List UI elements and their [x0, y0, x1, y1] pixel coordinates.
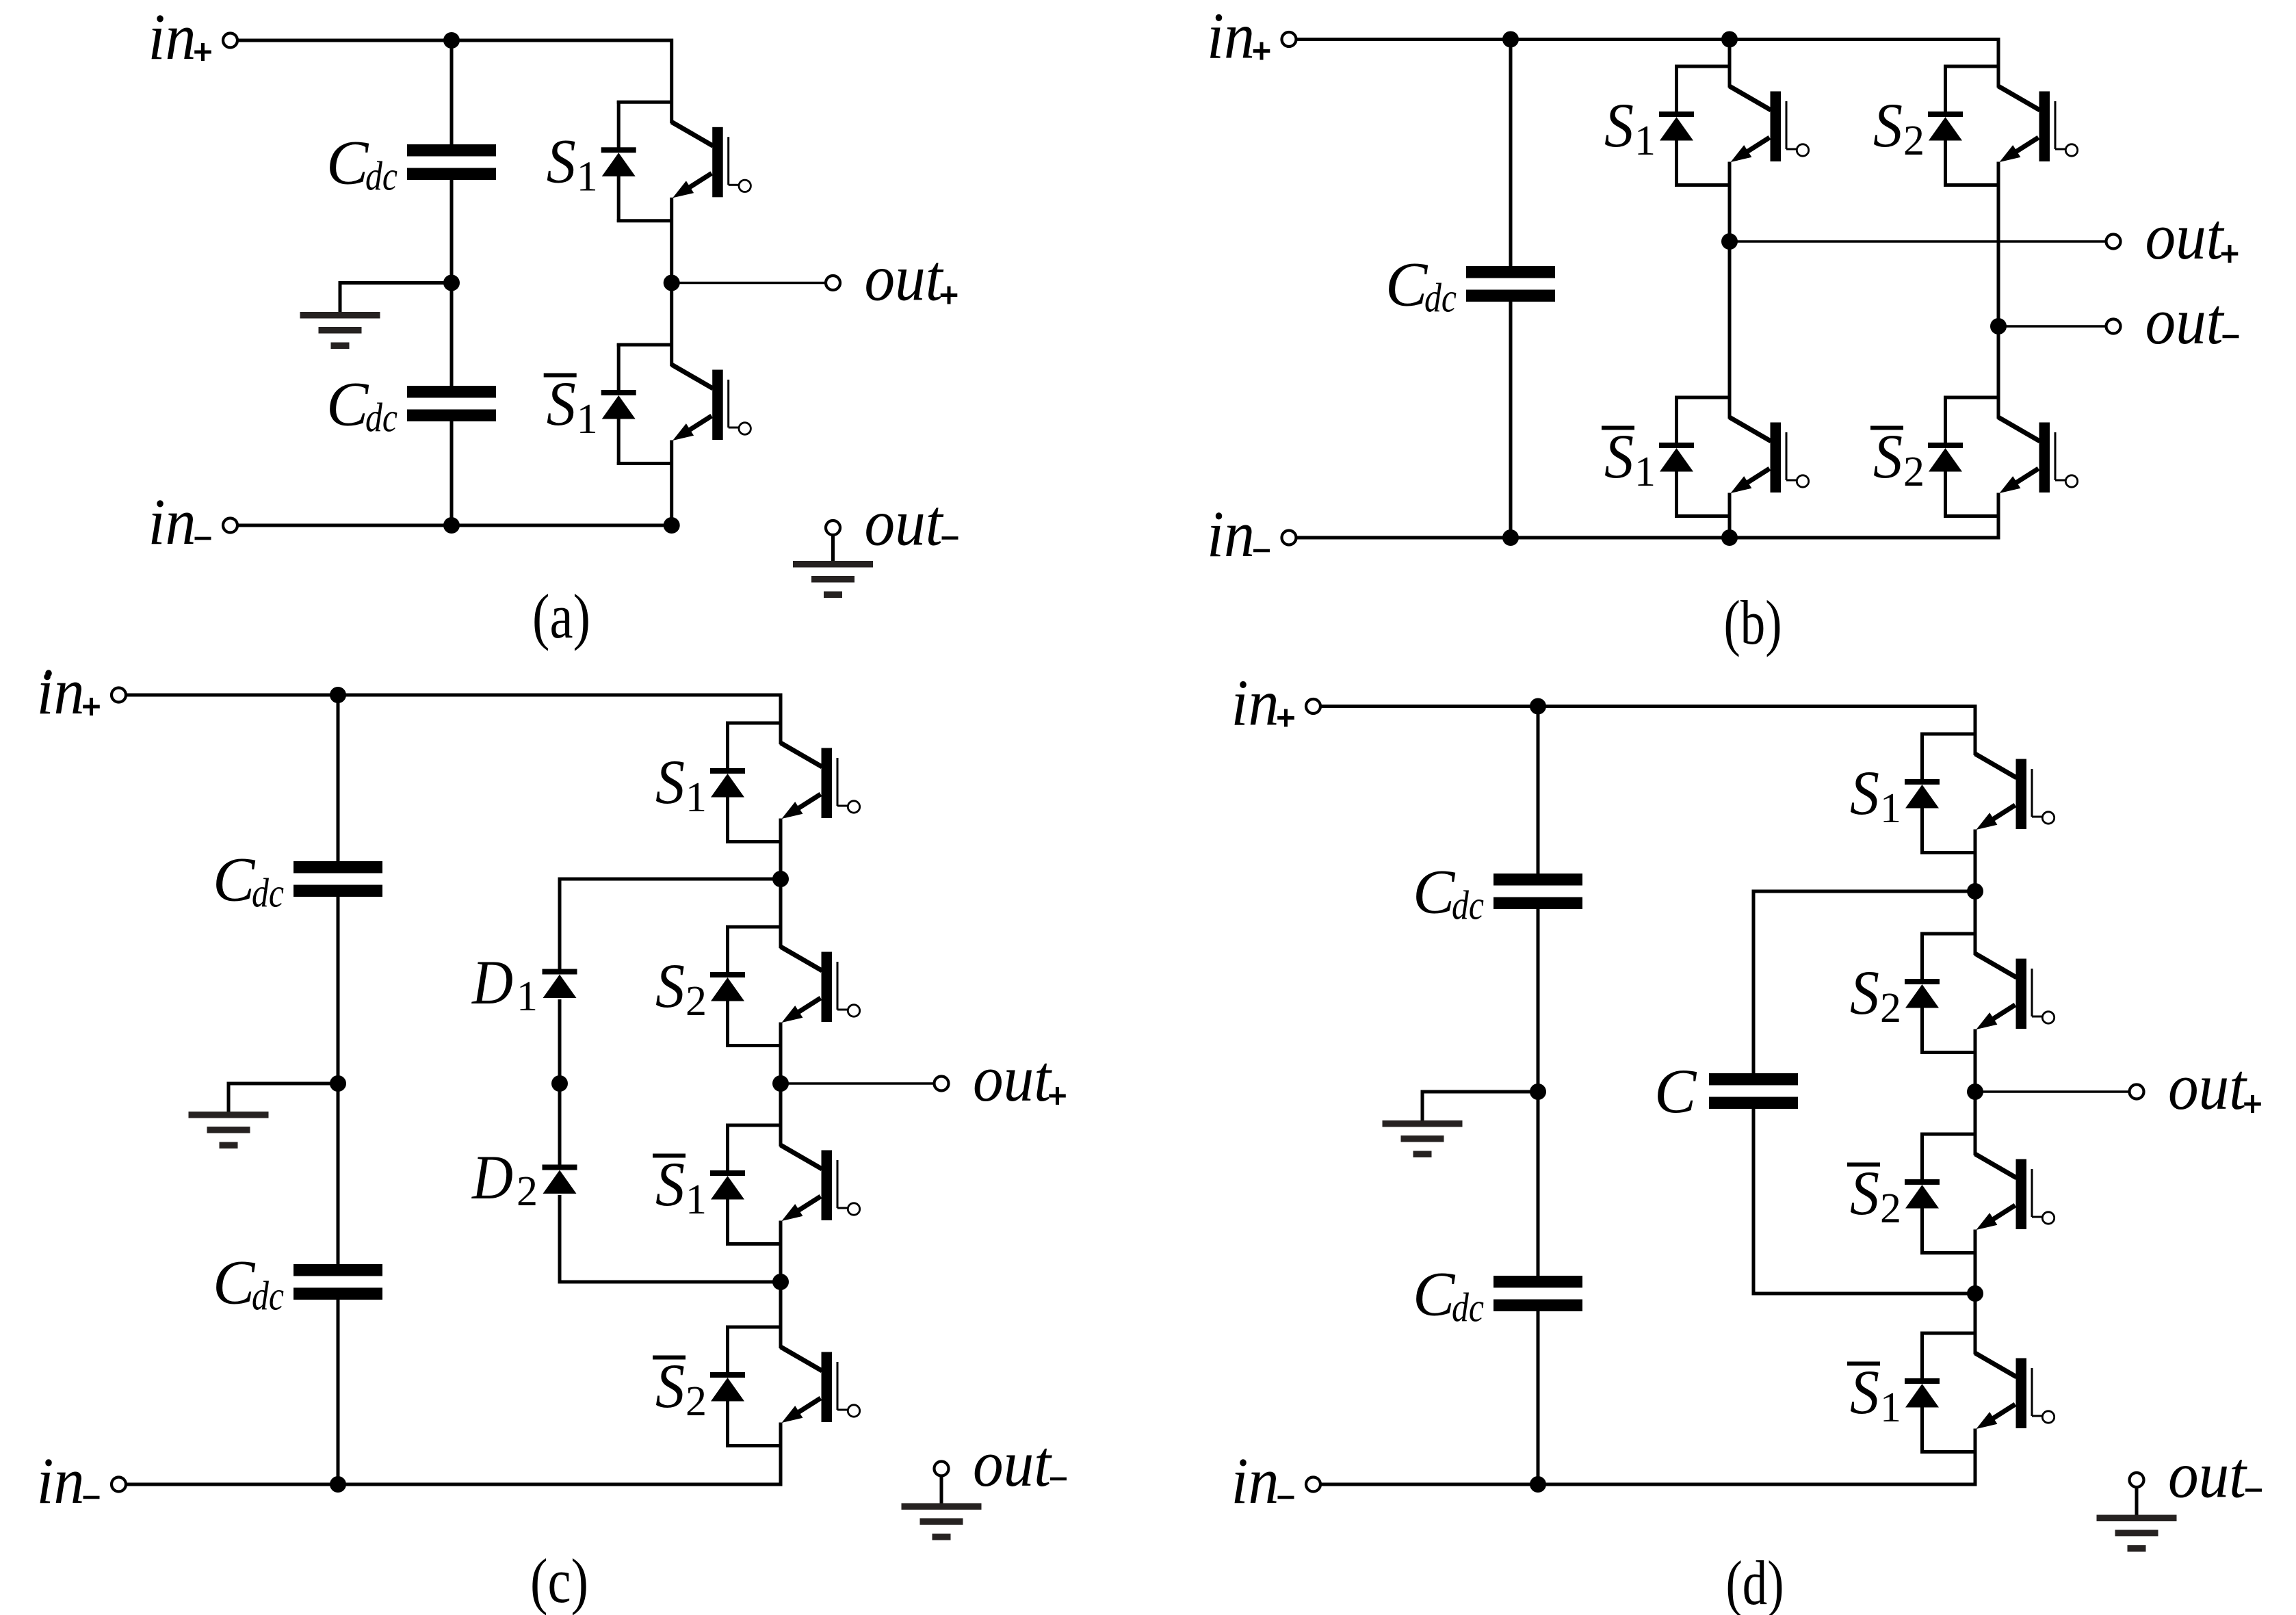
wire (b) cap bottom lead [1509, 301, 1513, 538]
svg-text:dc: dc [1424, 276, 1457, 321]
text period artifact bottom-left [44, 674, 51, 681]
wire (b) S2 emitter to out- [1997, 162, 2000, 327]
svg-text:C: C [326, 369, 369, 439]
wire (c) S2bar collector [779, 1282, 783, 1348]
transistor S2 (b): IGBT [1998, 86, 2078, 162]
capacitor Cdc upper (a) [407, 144, 496, 157]
transistor S1 (b): IGBT [1730, 86, 1809, 162]
node (c) top junction [330, 687, 346, 703]
wire (c) S1 collector [779, 695, 783, 744]
node in- (b): terminal [1282, 531, 1296, 545]
svg-text:S: S [547, 126, 576, 196]
diode S2 (b) anti-parallel [1928, 65, 1998, 187]
wire (a) bottom bus [238, 524, 674, 527]
node out+ (d): terminal [2130, 1085, 2144, 1099]
svg-text:in: in [1231, 1444, 1279, 1517]
label out+ (b) [2145, 200, 2239, 273]
diode S2bar (b) anti-parallel [1928, 396, 1998, 518]
label in- (d) [1231, 1444, 1294, 1517]
ground (a) neutral [300, 312, 380, 319]
svg-text:out: out [2168, 1050, 2247, 1123]
node (a) bottom junction leg [664, 517, 680, 534]
diode S1bar (a) anti-parallel [601, 343, 672, 465]
wire (d) cap1 bottom lead [1537, 908, 1540, 1092]
node out- (d): terminal [2130, 1473, 2144, 1487]
transistor S2bar (b): IGBT [1998, 417, 2078, 493]
transistor S2bar (d): IGBT [1975, 1154, 2054, 1230]
svg-text:D: D [471, 947, 513, 1017]
node (b) bottom junction cap [1502, 529, 1519, 546]
capacitor Cdc (b) [1466, 266, 1555, 278]
wire (b) cap top lead [1509, 40, 1513, 267]
wire (b) S1 emitter to out+ [1728, 162, 1732, 242]
svg-text:C: C [1654, 1056, 1697, 1126]
wire (a) cap1 top lead [450, 40, 454, 145]
label Cdc (b) [1385, 250, 1457, 321]
svg-text:C: C [213, 845, 256, 915]
wire (c) D1 to out+ row [558, 999, 562, 1084]
label D2 (c) [471, 1142, 538, 1215]
label in+ (c) [37, 655, 100, 728]
wire (c) J1 to D branch [558, 878, 781, 969]
label in+ (a) [148, 0, 211, 73]
svg-text:in: in [1207, 0, 1255, 73]
label in+ (d) [1231, 666, 1294, 739]
svg-text:dc: dc [1452, 1285, 1484, 1330]
capacitor Cdc lower (d) [1493, 1276, 1582, 1288]
node (a) neutral junction [443, 275, 460, 291]
svg-text:(b): (b) [1724, 588, 1782, 657]
svg-text:dc: dc [365, 154, 397, 199]
wire (c) cap2 bottom lead [337, 1299, 340, 1484]
transistor S1 (a): IGBT [672, 122, 751, 198]
wire (c) S1bar collector [779, 1084, 783, 1146]
svg-text:2: 2 [517, 1168, 538, 1215]
svg-text:out: out [973, 1042, 1052, 1115]
svg-text:C: C [1385, 250, 1429, 319]
wire (b) S2bar collector [1997, 326, 2000, 419]
node out+ (a): junction [664, 275, 680, 291]
svg-text:1: 1 [577, 396, 598, 443]
wire (c) ground stub [229, 1082, 338, 1114]
label out- (a) [865, 486, 958, 560]
label S2bar (b) [1870, 421, 1925, 495]
wire (c) bottom bus [127, 1483, 783, 1486]
label Cdc lower (a) [326, 369, 397, 441]
svg-text:dc: dc [365, 395, 397, 441]
node out+ (a): terminal [826, 276, 840, 290]
node in+ (a): terminal [223, 34, 237, 48]
transistor S2 (d): IGBT [1975, 954, 2054, 1029]
svg-text:(a): (a) [532, 581, 590, 651]
diode S1bar (d) anti-parallel [1905, 1332, 1975, 1454]
label in+ (b) [1207, 0, 1270, 73]
capacitor Cdc upper (d) [1493, 874, 1582, 886]
svg-text:S: S [655, 951, 685, 1021]
ground out- (a) [793, 561, 873, 568]
node in+ (b): terminal [1282, 32, 1296, 47]
wire (a) ground stub [340, 281, 452, 312]
ground (d) neutral [1383, 1120, 1463, 1127]
node out+ (c): junction [772, 1075, 789, 1092]
svg-text:1: 1 [1634, 118, 1656, 164]
svg-text:S: S [655, 1351, 685, 1421]
node (d) top junction [1530, 698, 1546, 715]
wire (c) cap1 bottom lead [337, 896, 340, 1084]
capacitor C flying (d) [1709, 1073, 1798, 1086]
wire (d) S1bar emitter [1974, 1429, 1977, 1485]
diode S2 (d) anti-parallel [1905, 932, 1975, 1054]
svg-text:S: S [655, 1149, 685, 1219]
svg-text:out: out [2168, 1439, 2247, 1512]
label Cdc lower (c) [213, 1248, 284, 1319]
node out- (c): terminal [935, 1462, 949, 1476]
label S2 (c) [655, 951, 707, 1025]
wire (a) cap1 bottom lead [450, 179, 454, 283]
label out+ (a) [865, 241, 958, 315]
diode S1bar (b) anti-parallel [1659, 396, 1730, 518]
node (c) J1 junction [772, 871, 789, 887]
transistor S1bar (a): IGBT [672, 365, 751, 441]
svg-text:dc: dc [252, 1274, 284, 1319]
wire (a) cap2 bottom lead [450, 421, 454, 525]
label S2bar (d) [1847, 1158, 1901, 1232]
wire (a) S1 collector [670, 39, 673, 124]
wire (d) bottom bus [1321, 1483, 1977, 1486]
capacitor Cdc lower (c) [293, 1264, 382, 1276]
label S1 (c) [655, 747, 707, 821]
wire out- ground stub (c) [940, 1476, 943, 1505]
wire out+ lead (d) [1975, 1090, 2130, 1093]
transistor S2 (c): IGBT [781, 947, 860, 1023]
diode S1 (b) anti-parallel [1659, 65, 1730, 187]
wire (b) S2 collector [1997, 40, 2000, 88]
diode S2 (c) anti-parallel [710, 925, 781, 1047]
wire (c) S2 collector [779, 879, 783, 948]
node out- (b): terminal [2106, 319, 2121, 334]
node out+ (b): terminal [2106, 235, 2121, 249]
wire (d) cap1 top lead [1537, 707, 1540, 875]
label in- (c) [37, 1444, 100, 1517]
wire (d) S2bar emitter to J2 [1974, 1230, 1977, 1294]
wire (b) top bus [1296, 38, 2000, 41]
label out- (d) [2168, 1439, 2262, 1512]
svg-text:1: 1 [1880, 785, 1901, 832]
svg-text:C: C [1413, 857, 1456, 927]
svg-text:2: 2 [1903, 449, 1925, 495]
wire (d) top bus [1321, 705, 1977, 708]
svg-text:in: in [1207, 497, 1255, 570]
wire out- lead (b) [1998, 325, 2106, 328]
svg-text:S: S [547, 369, 576, 438]
node (c) neutral junction [330, 1075, 346, 1092]
svg-text:2: 2 [686, 978, 707, 1025]
wire (b) S1bar emitter [1728, 493, 1732, 538]
label Cdc upper (d) [1413, 857, 1484, 928]
svg-text:2: 2 [1880, 985, 1901, 1032]
label out+ (c) [973, 1042, 1066, 1115]
wire (c) D2 to J2 [558, 1195, 781, 1282]
svg-text:out: out [2145, 200, 2225, 273]
ground (c) neutral [189, 1112, 269, 1118]
wire (a) S1 emitter to out+ [670, 198, 673, 283]
node in- (a): terminal [223, 518, 237, 533]
svg-text:C: C [213, 1248, 256, 1317]
diode S2bar (c) anti-parallel [710, 1326, 781, 1447]
wire (a) S1bar emitter [670, 441, 673, 526]
svg-text:2: 2 [686, 1378, 707, 1425]
svg-text:1: 1 [517, 973, 538, 1020]
label S1bar (a) [544, 369, 598, 443]
capacitor Cdc upper (c) [293, 861, 382, 874]
node (a) bottom junction cap [443, 517, 460, 534]
wire (c) S2bar emitter [779, 1423, 783, 1485]
svg-text:in: in [1231, 666, 1279, 739]
node (c) J2 junction [772, 1274, 789, 1290]
wire (c) out+ row to D2 [558, 1084, 562, 1165]
node in- (d): terminal [1306, 1478, 1320, 1492]
node (b) top junction cap [1502, 31, 1519, 48]
svg-text:2: 2 [1903, 118, 1925, 164]
svg-text:S: S [1873, 421, 1903, 491]
node out+ (c): terminal [935, 1077, 949, 1091]
diode D2 (c) [543, 1165, 577, 1170]
wire out+ lead (a) [672, 282, 826, 285]
svg-text:1: 1 [1634, 449, 1656, 495]
transistor S1 (c): IGBT [781, 743, 860, 819]
svg-text:1: 1 [577, 153, 598, 200]
node in- (c): terminal [112, 1478, 126, 1492]
svg-text:(d): (d) [1726, 1548, 1784, 1615]
label Cdc upper (c) [213, 845, 284, 916]
label out- (b) [2145, 285, 2239, 358]
wire (b) bottom bus [1296, 536, 2000, 540]
label S1 (b) [1604, 90, 1656, 164]
label S2 (d) [1850, 958, 1901, 1032]
svg-text:S: S [655, 747, 685, 817]
label S1bar (c) [653, 1149, 707, 1223]
svg-text:C: C [1413, 1259, 1456, 1329]
svg-text:dc: dc [252, 871, 284, 916]
svg-text:(c): (c) [530, 1546, 588, 1615]
label out+ (d) [2168, 1050, 2261, 1123]
wire (d) ground stub [1422, 1090, 1538, 1123]
wire (a) cap2 top lead [450, 283, 454, 387]
label S2 (b) [1873, 90, 1925, 164]
transistor S1bar (b): IGBT [1730, 417, 1809, 493]
svg-text:C: C [326, 128, 369, 198]
node out+ (d): junction [1967, 1084, 1983, 1100]
svg-text:in: in [148, 485, 196, 558]
transistor S1bar (c): IGBT [781, 1145, 860, 1221]
diode S1 (a) anti-parallel [601, 101, 672, 222]
node (c) D branch junction [551, 1075, 568, 1092]
node in+ (c): terminal [112, 688, 126, 703]
wire (c) S2 emitter to out+ [779, 1023, 783, 1084]
label S2bar (c) [653, 1351, 707, 1425]
node (d) bottom junction [1530, 1476, 1546, 1493]
label in- (b) [1207, 497, 1270, 570]
wire (d) cap2 top lead [1537, 1092, 1540, 1276]
wire (d) S1 emitter to J1 [1974, 830, 1977, 892]
wire out- ground stub (d) [2135, 1487, 2139, 1516]
svg-text:1: 1 [686, 774, 707, 821]
diode S2bar (d) anti-parallel [1905, 1133, 1975, 1255]
node out+ (b): junction [1721, 233, 1738, 250]
node (a) top junction [443, 32, 460, 49]
wire out- ground stub (a) [831, 535, 835, 562]
ground out- (d) [2097, 1515, 2177, 1522]
wire (d) S1bar collector [1974, 1294, 1977, 1354]
node in+ (d): terminal [1306, 699, 1320, 713]
wire (d) S2 collector [1974, 891, 1977, 955]
svg-text:S: S [1850, 1357, 1879, 1427]
diode S1 (c) anti-parallel [710, 722, 781, 843]
capacitor Cdc lower (a) [407, 386, 496, 398]
label S1 (a) [547, 126, 598, 200]
svg-text:1: 1 [1880, 1384, 1901, 1431]
wire (c) top bus [127, 694, 783, 697]
svg-text:S: S [1604, 90, 1634, 160]
node (b) top junction leg1 [1721, 31, 1738, 48]
label S1bar (d) [1847, 1357, 1901, 1431]
svg-text:S: S [1850, 958, 1879, 1027]
node (d) neutral junction [1530, 1084, 1546, 1100]
node (c) bottom junction [330, 1476, 346, 1493]
svg-text:in: in [37, 1444, 85, 1517]
wire (c) cap1 top lead [337, 695, 340, 862]
svg-text:out: out [2145, 285, 2225, 358]
svg-text:out: out [865, 241, 944, 315]
label D1 (c) [471, 947, 538, 1020]
transistor S1 (d): IGBT [1975, 754, 2054, 830]
svg-text:dc: dc [1452, 883, 1484, 928]
svg-text:in: in [148, 0, 196, 73]
wire (a) top bus [238, 39, 672, 42]
svg-text:in: in [37, 655, 85, 728]
diode D1 (c) [543, 969, 577, 975]
wire (d) J1 to C branch [1752, 890, 1976, 1075]
svg-text:S: S [1850, 758, 1879, 828]
wire (d) S1 collector [1974, 707, 1977, 756]
wire (b) S1bar collector [1728, 241, 1732, 419]
node (d) J2 junction [1967, 1285, 1983, 1302]
transistor S2bar (c): IGBT [781, 1347, 860, 1423]
node out- (a): terminal [826, 521, 840, 535]
label out- (c) [973, 1427, 1067, 1500]
label in- (a) [148, 485, 211, 558]
svg-text:S: S [1604, 421, 1634, 491]
label S1bar (b) [1602, 421, 1656, 495]
svg-text:D: D [471, 1142, 513, 1212]
diode S1bar (c) anti-parallel [710, 1124, 781, 1246]
wire (b) S2bar emitter [1997, 493, 2000, 538]
wire (d) cap2 bottom lead [1537, 1311, 1540, 1484]
wire (c) S1 emitter to J1 [779, 819, 783, 880]
label Cdc lower (d) [1413, 1259, 1484, 1330]
label Cdc upper (a) [326, 128, 397, 199]
wire (c) S1bar emitter to J2 [779, 1221, 783, 1283]
wire (d) S2bar collector [1974, 1092, 1977, 1155]
wire (d) S2 emitter to out+ [1974, 1029, 1977, 1092]
transistor S1bar (d): IGBT [1975, 1353, 2054, 1429]
svg-text:1: 1 [686, 1177, 707, 1223]
svg-text:S: S [1873, 90, 1903, 160]
node (b) bottom junction leg1 [1721, 529, 1738, 546]
node (d) J1 junction [1967, 883, 1983, 900]
label S1 (d) [1850, 758, 1901, 832]
node out- (b): junction [1990, 318, 2007, 334]
wire (b) S1 collector [1728, 40, 1732, 88]
wire (c) cap2 top lead [337, 1084, 340, 1265]
wire out+ lead (c) [781, 1082, 935, 1085]
svg-text:out: out [865, 486, 944, 560]
diode S1 (d) anti-parallel [1905, 733, 1975, 854]
wire out+ lead (b) [1730, 240, 2106, 243]
svg-text:out: out [973, 1427, 1052, 1500]
svg-text:S: S [1850, 1158, 1879, 1228]
wire (d) C branch to J2 [1752, 1108, 1976, 1294]
ground out- (c) [902, 1504, 982, 1510]
svg-text:2: 2 [1880, 1185, 1901, 1232]
wire (a) S1bar collector [670, 283, 673, 367]
